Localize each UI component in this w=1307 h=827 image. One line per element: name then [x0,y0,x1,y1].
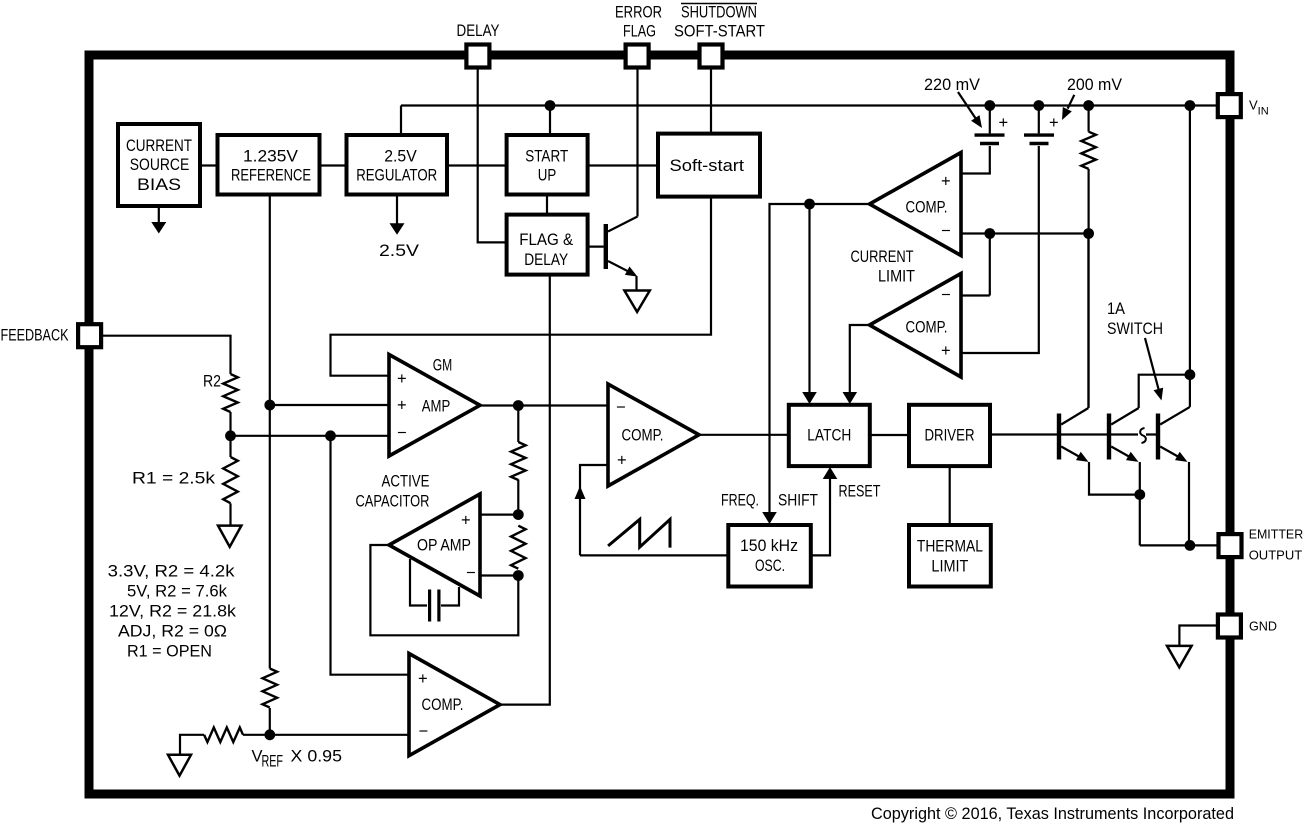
node divider junction [225,430,236,441]
svg-text:DELAY: DELAY [457,22,500,40]
svg-text:GND: GND [1249,619,1277,634]
wire GM amp output to PWM comparator [480,404,608,406]
svg-text:−: − [941,222,951,240]
wire Vref node left to resistor [243,734,270,736]
resistor current sense [1081,132,1096,169]
svg-text:OUTPUT: OUTPUT [1249,548,1303,563]
svg-text:+: + [941,342,951,360]
svg-text:DRIVER: DRIVER [925,427,975,445]
transistor Q3 1A switch [1156,106,1190,546]
node opamp minus [513,570,524,581]
wire driver output to switch bases [990,433,1156,435]
wire DELAY pin to FLAG-DELAY box [478,66,507,242]
svg-text:5V, R2 = 7.6k: 5V, R2 = 7.6k [127,583,228,601]
svg-text:CURRENT: CURRENT [126,137,192,155]
arrow pointer 200mV [1068,95,1075,109]
block START UP [507,135,588,195]
wire comp2 minus up to comp1 minus [961,234,990,296]
svg-text:ERROR: ERROR [615,4,662,22]
svg-text:ACTIVE: ACTIVE [382,473,430,491]
svg-text:Copyright © 2016, Texas Instru: Copyright © 2016, Texas Instruments Inco… [871,804,1234,823]
node Vref x0.95 [264,729,275,740]
pin pad SHUTDOWN SOFT-START [700,45,723,68]
arrow current source bias output [158,206,160,225]
arrowhead up into comparator plus [575,486,586,499]
svg-text:LIMIT: LIMIT [931,558,968,576]
ground flag transistor [624,291,649,312]
block THERMAL LIMIT [909,525,991,587]
pin pad VIN [1218,94,1241,117]
wire comp2 plus input to cap200 [961,146,1039,353]
wire SHUTDOWN pin to Soft-start [710,66,712,134]
svg-text:3.3V, R2 = 4.2k: 3.3V, R2 = 4.2k [108,563,236,581]
svg-text:Soft-start: Soft-start [670,157,745,175]
wire VIN rail [401,106,1218,135]
svg-text:2.5V: 2.5V [384,148,417,166]
node sense resistor on rail [1083,100,1094,111]
op-amp GM AMP error amplifier [389,355,480,457]
svg-text:THERMAL: THERMAL [917,538,983,556]
wire FLAG-DELAY to flag transistor base [587,246,603,248]
node branch to low comparator [325,430,336,441]
capacitor 220mV sense [975,106,1005,146]
wire sense resistor top [1087,106,1089,132]
arrow pointer 220mV [958,92,976,118]
svg-text:ADJ, R2 = 0Ω: ADJ, R2 = 0Ω [118,623,227,641]
svg-text:OP AMP: OP AMP [417,537,471,555]
wire opamp feedback loop [370,545,518,635]
node switch collector on rail [1185,100,1196,111]
svg-text:FREQ.: FREQ. [721,492,759,510]
svg-text:−: − [419,723,429,741]
svg-text:−: − [397,424,407,442]
svg-text:R1 = 2.5k: R1 = 2.5k [132,470,216,488]
svg-text:COMP.: COMP. [906,199,948,217]
block DRIVER [909,405,990,466]
resistor R1 [223,457,238,503]
svg-text:12V, R2 = 21.8k: 12V, R2 = 21.8k [109,603,237,621]
svg-text:X 0.95: X 0.95 [291,748,343,766]
wire box chain at y=165.5 [199,164,658,166]
svg-text:R1 = OPEN: R1 = OPEN [127,643,212,661]
svg-text:FEEDBACK: FEEDBACK [1,327,69,345]
svg-text:+: + [461,512,471,530]
resistor active capacitor lower [511,526,526,569]
wire STARTUP to FLAG-DELAY [546,194,548,215]
sawtooth waveform [608,519,670,547]
node Q2 collector junction [1185,369,1196,380]
transistor Q2 darlington [1107,375,1190,546]
wire FEEDBACK pin to R2 [101,336,231,374]
svg-text:SHIFT: SHIFT [778,492,818,510]
node cap220 on rail [984,100,995,111]
wire latch to driver [870,434,909,436]
wire PWM comparator output to LATCH [699,434,789,436]
wire GND pin to ground [1179,626,1218,646]
squiggle base resistance [1140,428,1146,443]
svg-text:LIMIT: LIMIT [878,268,915,286]
svg-text:RESET: RESET [839,483,881,501]
wire divider resistor to Vref node [269,708,271,735]
svg-text:+: + [418,670,428,688]
block LATCH [789,405,870,466]
svg-text:+: + [999,114,1009,132]
resistor Vref divider vertical [262,669,277,708]
node comp1 output [804,199,815,210]
wire R1 connection [229,436,231,457]
arrowhead reset into latch [823,467,838,479]
svg-text:GM: GM [433,357,453,375]
wire Vref node to comparator minus input [270,734,409,736]
wire PWM comparator plus input path from oscillator [580,465,728,555]
svg-text:+: + [617,452,627,470]
svg-text:LATCH: LATCH [807,427,851,445]
arrow 2.5V regulator output [396,194,398,226]
node VIN rail startup junction [545,100,556,111]
wire oscillator reset to latch [811,475,830,555]
svg-text:FLAG: FLAG [623,23,656,41]
svg-text:SOURCE: SOURCE [130,156,190,174]
svg-text:+: + [397,370,407,388]
ground Vref divider [168,755,191,776]
svg-text:+: + [941,173,951,191]
svg-text:150 kHz: 150 kHz [740,537,798,555]
arrow pointer 1A switch [1145,338,1159,391]
block 150 kHz OSC [728,525,811,587]
wire GM output down to resistor [517,406,519,443]
node reference to GM amp [264,400,275,411]
ground R1 [218,526,241,547]
resistor Vref to ground horizontal [204,728,243,743]
wire divider to GM amp inverting input [231,435,390,437]
wire node to opamp plus input [480,513,518,515]
comparator PWM [608,384,699,486]
svg-text:CAPACITOR: CAPACITOR [356,493,430,511]
op-amp OP AMP active capacitor [389,494,480,596]
node opamp plus [513,509,524,520]
wire 1.235V reference rail [269,196,271,669]
pin pad FEEDBACK [78,324,101,347]
wire Soft-start to GM amp top input [331,197,712,376]
svg-text:−: − [616,399,626,417]
svg-text:UP: UP [538,167,557,185]
svg-text:200 mV: 200 mV [1067,76,1122,94]
svg-text:BIAS: BIAS [137,176,181,194]
svg-text:COMP.: COMP. [906,319,948,337]
comparator current limit 2 [870,274,962,378]
svg-text:AMP: AMP [422,398,451,416]
block 2.5V REGULATOR [347,135,448,195]
wire current limit comp1 plus input [961,146,990,174]
svg-text:CURRENT: CURRENT [851,248,914,266]
ground GND pin [1167,646,1192,668]
wire sense resistor to comp1 minus node and switch collector [1087,169,1089,408]
wire reference to GM amp plus input [270,404,389,406]
wire comp2 output down to latch [850,325,870,396]
svg-text:FLAG &: FLAG & [519,231,573,249]
svg-text:OSC.: OSC. [755,557,785,575]
svg-text:R2: R2 [203,373,221,391]
wire R2 to divider node [229,412,231,436]
svg-text:+: + [397,397,407,415]
svg-text:DELAY: DELAY [524,251,568,269]
comparator undervoltage [409,654,500,756]
wire emitter output line [1140,544,1218,546]
svg-text:SOFT-START: SOFT-START [674,23,765,41]
svg-text:−: − [466,564,476,582]
pin pad EMITTER OUTPUT [1219,534,1242,557]
wire resistor to ground corner [180,735,204,755]
svg-text:COMP.: COMP. [422,696,464,714]
svg-text:START: START [525,148,568,166]
svg-text:1A: 1A [1107,300,1125,318]
node comp1 minus branch [984,228,995,239]
svg-text:SWITCH: SWITCH [1107,320,1163,338]
svg-text:REF: REF [262,753,284,771]
svg-text:COMP.: COMP. [622,427,664,445]
transistor Qflag error flag transistor [604,66,638,290]
svg-text:REFERENCE: REFERENCE [231,167,311,185]
wire node to opamp minus input [480,574,518,576]
svg-text:1.235V: 1.235V [243,148,298,166]
node cap200 on rail [1033,100,1044,111]
pin pad GND [1218,615,1241,638]
wire driver to thermal limit [949,466,951,525]
svg-text:220 mV: 220 mV [924,76,980,94]
IC boundary border [89,55,1230,794]
node GM output [513,400,524,411]
resistor R2 [223,374,238,412]
block FLAG and DELAY [507,215,588,275]
block CURRENT SOURCE BIAS [118,124,200,206]
node sense resistor comp junction [1083,228,1094,239]
svg-text:+: + [1049,114,1059,132]
pin pad DELAY [466,45,489,68]
transistor Q1 darlington [1057,234,1140,495]
wire FLAG-DELAY down to undervoltage comparator output [500,275,550,705]
svg-text:EMITTER: EMITTER [1249,527,1304,542]
wire comp1 output to latch and freq shift [770,204,870,516]
arrowhead freq shift into oscillator [762,512,777,524]
wire R1 to ground [229,503,231,525]
block Soft-start [658,134,760,197]
block 1.235V REFERENCE [218,135,320,195]
svg-text:REGULATOR: REGULATOR [356,167,437,185]
svg-text:SHUTDOWN: SHUTDOWN [681,4,757,22]
svg-text:−: − [941,286,951,304]
node Q1 emitter junction [1134,489,1145,500]
wire resistor to opamp plus node [517,480,519,515]
capacitor opamp compensation [410,559,459,622]
pin pad ERROR FLAG [626,45,649,68]
resistor active capacitor upper [511,442,526,480]
node emitter output junction [1185,540,1196,551]
arrowhead into latch 1 [802,392,817,404]
svg-text:2.5V: 2.5V [379,242,419,260]
wire current limit comp1 minus input [961,232,1089,234]
wire comp1 output down to latch [808,204,810,396]
wire branch down to comparator plus input [331,436,410,675]
arrowhead into latch 2 [843,392,858,404]
capacitor 200mV sense [1024,106,1054,146]
comparator current limit 1 [870,153,962,256]
